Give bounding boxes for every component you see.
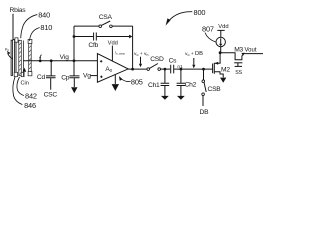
transistor M3 <box>220 53 242 60</box>
minus input <box>100 76 103 79</box>
node dot n1 <box>180 68 183 71</box>
anchor box top left <box>15 38 18 42</box>
node dot sensor <box>39 59 42 62</box>
M2 drain lead <box>215 53 221 64</box>
anchor box bottom mid <box>21 72 24 76</box>
tiny current mark at node <box>40 55 42 59</box>
feedback right rail vertical <box>132 26 134 69</box>
node dot CSB <box>202 68 205 71</box>
feedback left rail vertical <box>73 26 75 61</box>
wire Vout <box>244 53 263 55</box>
leader to 846 <box>13 77 23 105</box>
plus input <box>100 60 103 63</box>
node dot output <box>131 68 134 71</box>
annotation arrow vo+vn <box>140 57 142 64</box>
svg-text:M2: M2 <box>221 67 230 74</box>
ground bar Ch1 <box>161 96 169 100</box>
SS rail tick <box>235 65 242 67</box>
svg-text:Vg: Vg <box>83 73 91 80</box>
svg-text:DB: DB <box>200 109 210 116</box>
svg-text:Vdd: Vdd <box>108 40 118 46</box>
ground under op-amp <box>114 75 116 84</box>
svg-text:Cs: Cs <box>169 57 178 64</box>
leader to current source <box>205 33 216 42</box>
switch CSB <box>203 69 205 80</box>
node dot bias <box>219 51 222 54</box>
svg-text:CSD: CSD <box>150 56 164 63</box>
svg-text:842: 842 <box>25 92 37 101</box>
anchor box bottom left <box>14 72 17 76</box>
svg-text:810: 810 <box>40 23 52 32</box>
M3 gate bar <box>234 62 242 64</box>
sensor electrode bar A <box>11 40 13 75</box>
svg-text:M3: M3 <box>234 47 243 54</box>
sensor electrode bar B <box>15 40 16 75</box>
svg-text:Cfb: Cfb <box>88 42 98 49</box>
switch CSA top rail <box>74 25 99 27</box>
svg-text:SS: SS <box>235 70 242 76</box>
svg-text:Vout: Vout <box>245 48 257 54</box>
svg-text:in_amp: in_amp <box>115 51 125 56</box>
svg-text:807: 807 <box>202 24 214 33</box>
arrowhead into output node <box>129 35 132 39</box>
ground arrow under Cp <box>71 87 77 93</box>
capacitor Ch2 <box>180 69 182 83</box>
svg-text:Ch2: Ch2 <box>185 82 197 89</box>
transistor M2 gate bar <box>212 64 214 74</box>
backplate 840 hatched bar C <box>19 40 22 75</box>
leader to 810 <box>30 28 40 41</box>
svg-text:A0: A0 <box>105 66 112 73</box>
leader 800 arrow <box>169 12 193 22</box>
current source 807 <box>216 37 225 46</box>
anchor box bottom on D <box>28 72 32 76</box>
M2 source lead <box>215 72 224 78</box>
svg-text:n1: n1 <box>177 64 183 70</box>
svg-text:Vig: Vig <box>60 54 70 61</box>
svg-text:CSC: CSC <box>44 92 58 99</box>
capacitor Cp <box>73 61 75 76</box>
leader to 805 <box>121 79 131 82</box>
anchor box top on D <box>28 39 32 43</box>
ground arrow M2 <box>220 78 226 83</box>
svg-text:Cin: Cin <box>21 80 29 86</box>
svg-text:800: 800 <box>194 8 206 17</box>
M3 gate stem to SS <box>237 63 239 66</box>
svg-text:CSB: CSB <box>208 86 222 93</box>
capacitor Cs <box>171 65 174 74</box>
wire op-amp output <box>128 68 147 70</box>
wire Vdd to op-amp <box>111 46 113 61</box>
svg-text:Cd: Cd <box>37 74 46 81</box>
wire to Cs <box>161 68 171 70</box>
M2 channel bar <box>213 63 215 74</box>
capacitor Cfb <box>74 36 93 38</box>
svg-text:805: 805 <box>131 77 143 86</box>
membrane 810 thin line <box>22 41 24 77</box>
node dot feedback left <box>73 35 76 38</box>
capacitor Ch1 <box>164 69 166 83</box>
node dot Cp <box>73 59 76 62</box>
wire Vig from membrane <box>23 60 97 62</box>
leader to 840 <box>21 15 38 39</box>
svg-text:CSA: CSA <box>99 14 113 21</box>
switch CSD <box>147 68 150 71</box>
ground bar Ch2 <box>177 96 185 100</box>
op-amp A0 triangle <box>97 54 128 83</box>
svg-text:vo + vn: vo + vn <box>134 52 148 57</box>
svg-text:Rbias: Rbias <box>10 7 27 14</box>
svg-text:846: 846 <box>24 101 36 110</box>
svg-text:Vdd: Vdd <box>218 24 228 30</box>
wire Rbias to sensor <box>13 14 18 40</box>
annotation arrow vo+DB <box>193 58 195 65</box>
capacitor Cd <box>50 61 52 76</box>
leader to 842 <box>17 77 24 96</box>
backplate hatched bar D <box>29 41 32 76</box>
wire Vg stub <box>91 75 98 77</box>
svg-text:Ch1: Ch1 <box>148 82 160 89</box>
Vdd rail tick <box>217 29 224 31</box>
vp arrow <box>8 53 13 58</box>
svg-text:Cp: Cp <box>61 74 70 81</box>
pressure arrow up <box>23 68 27 72</box>
node dot Ch1 <box>164 68 167 71</box>
svg-text:840: 840 <box>38 11 50 20</box>
node dot Cd <box>50 59 53 62</box>
